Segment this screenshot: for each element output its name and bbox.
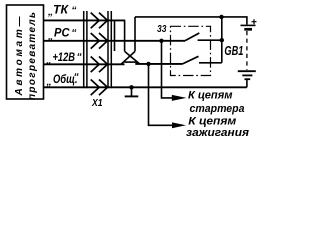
- svg-text:К цепям: К цепям: [188, 89, 233, 101]
- svg-text:GB1: GB1: [224, 44, 243, 58]
- svg-text:Автомат—: Автомат—: [14, 16, 25, 97]
- svg-text:X1: X1: [91, 97, 102, 109]
- svg-text:ЗЗ: ЗЗ: [157, 23, 167, 35]
- svg-text:прогреватель: прогреватель: [27, 12, 38, 100]
- svg-text:“: “: [71, 27, 77, 39]
- svg-text:“: “: [74, 71, 80, 83]
- svg-text:стартера: стартера: [190, 103, 245, 115]
- svg-text:“: “: [71, 4, 77, 16]
- svg-text:РС: РС: [54, 26, 70, 40]
- svg-text:зажигания: зажигания: [186, 127, 250, 139]
- svg-text:+12В: +12В: [53, 50, 76, 64]
- svg-text:ТК: ТК: [53, 3, 70, 17]
- svg-text:К цепям: К цепям: [188, 115, 236, 127]
- svg-text:“: “: [77, 51, 83, 63]
- svg-text:„: „: [46, 76, 52, 88]
- svg-text:„: „: [47, 30, 53, 42]
- svg-text:„: „: [45, 55, 51, 67]
